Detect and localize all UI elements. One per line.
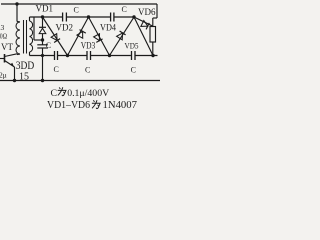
svg-text:VT: VT: [1, 42, 13, 52]
svg-text:VD6: VD6: [138, 7, 156, 17]
svg-text:VD1–VD6: VD1–VD6: [47, 100, 90, 110]
svg-text:0.1μ/400V: 0.1μ/400V: [67, 88, 109, 99]
svg-text:VD4: VD4: [100, 23, 116, 33]
svg-text:1N4007: 1N4007: [103, 100, 138, 110]
svg-text:R3: R3: [0, 23, 5, 32]
svg-text:VD2: VD2: [56, 23, 74, 33]
svg-text:C: C: [74, 5, 79, 14]
svg-text:C: C: [85, 65, 90, 74]
svg-text:0Ω: 0Ω: [0, 32, 7, 41]
svg-text:C: C: [46, 41, 51, 50]
svg-text:2μ: 2μ: [0, 71, 7, 80]
svg-text:VD5: VD5: [125, 41, 139, 51]
svg-text:VD1: VD1: [36, 4, 54, 14]
svg-text:VD3: VD3: [81, 41, 96, 51]
svg-text:C: C: [122, 5, 127, 14]
svg-text:C: C: [54, 65, 59, 74]
svg-text:C: C: [131, 65, 136, 74]
svg-text:15: 15: [19, 71, 29, 83]
svg-text:C: C: [51, 88, 58, 99]
